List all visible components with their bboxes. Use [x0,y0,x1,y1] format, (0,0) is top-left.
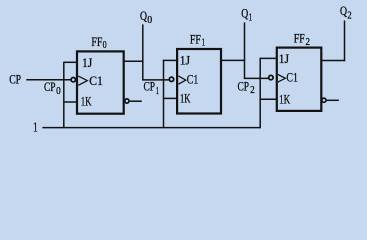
svg-text:2: 2 [250,85,255,96]
wire logic-1 feeder vertical FF0 [63,62,65,128]
svg-text:2: 2 [306,37,311,48]
wire logic-1 bottom rail [42,127,261,129]
JK flip-flop FF0 box [77,51,124,113]
wire Q2 vertical [344,21,346,62]
svg-text:FF: FF [190,33,201,47]
label CP2 [238,79,255,96]
svg-text:C1: C1 [187,73,199,87]
svg-text:2: 2 [347,10,351,21]
label FF1 [190,33,205,49]
svg-text:Q: Q [241,6,248,20]
svg-text:C1: C1 [286,71,298,85]
svg-text:CP: CP [144,79,156,93]
JK flip-flop FF2 box [277,48,322,111]
wire CP input lead [26,79,70,81]
clock edge triangle FF2 [278,74,285,82]
wire 1K feed FF2 [260,98,278,100]
inversion bubble C1 input FF0 [71,78,75,82]
svg-text:1K: 1K [279,93,290,107]
wire Q output FF1 [220,59,245,61]
inversion bubble C1 input FF2 [269,75,273,79]
wire 1K feed FF1 [163,97,178,99]
clock edge triangle FF1 [178,76,185,84]
svg-text:1J: 1J [180,54,191,68]
clock edge triangle FF0 [78,76,87,85]
svg-text:1J: 1J [82,56,92,70]
svg-text:CP: CP [9,73,21,87]
svg-text:1J: 1J [279,52,290,66]
svg-text:C1: C1 [89,74,103,88]
wire Q-bar stub FF0 [130,100,142,102]
svg-text:0: 0 [147,15,152,26]
svg-text:FF: FF [91,35,102,49]
svg-text:1: 1 [156,86,159,97]
svg-text:1K: 1K [180,92,191,106]
label CP1 [144,79,160,96]
wire 1K feed FF0 [64,101,78,103]
wire Q-bar stub FF2 [327,99,339,101]
wire 1J feed FF0 [64,61,78,63]
label Q1 [241,6,252,23]
label FF0 [91,35,106,51]
JK flip-flop FF1 box [177,49,221,114]
svg-text:1: 1 [33,120,38,135]
inversion bubble C1 input FF1 [169,77,173,81]
wire logic-1 feeder vertical FF1 [163,60,165,128]
wire Q output FF0 [123,60,144,62]
label FF2 [294,31,310,48]
svg-text:0: 0 [56,86,61,97]
svg-text:1: 1 [202,38,205,49]
label Q2 [340,4,352,22]
svg-text:0: 0 [103,40,107,51]
svg-text:FF: FF [294,31,305,45]
inversion bubble Q-bar output FF0 [125,99,129,103]
svg-text:1: 1 [249,13,253,24]
wire 1J feed FF2 [260,57,278,59]
wire 1J feed FF1 [163,59,178,61]
inversion bubble Q-bar output FF2 [322,98,326,102]
wire CP1 net to FF1 clock [143,79,169,81]
label CP0 [44,80,61,97]
wire Q0 vertical [142,24,144,80]
svg-text:CP: CP [238,79,250,93]
svg-text:Q: Q [140,9,147,23]
wire CP2 net to FF2 clock [245,77,269,79]
wire logic-1 feeder vertical FF2 [259,58,261,128]
svg-text:1K: 1K [81,95,92,109]
svg-text:Q: Q [340,4,347,18]
svg-text:CP: CP [44,80,56,94]
wire Q output FF2 [321,60,346,62]
wire Q1 vertical [244,22,246,79]
label Q0 [140,9,152,26]
